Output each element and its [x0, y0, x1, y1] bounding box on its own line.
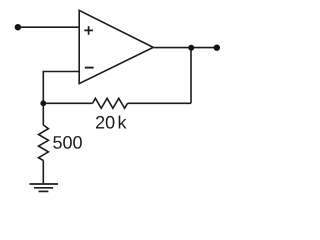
wire feedback rail right — [128, 102, 192, 104]
wire input to op-amp + — [18, 26, 79, 28]
label 20 k — [96, 115, 127, 128]
node output junction — [188, 45, 194, 51]
wire output — [153, 47, 217, 49]
wire inverting input — [43, 72, 79, 104]
op-amp + pin marker — [84, 26, 93, 35]
wire output feedback vertical — [190, 48, 192, 104]
op-amp U1 — [79, 10, 153, 83]
wire feedback rail left — [43, 102, 92, 104]
resistor R1 500 — [39, 125, 49, 161]
ground — [30, 184, 59, 191]
resistor R2 20k — [93, 98, 128, 108]
wire junction to resistor R1 — [42, 103, 44, 125]
wire resistor R1 to ground — [42, 161, 44, 184]
node input terminal — [15, 24, 21, 30]
label 500 — [53, 136, 82, 149]
node feedback junction — [40, 100, 46, 106]
node output terminal — [214, 45, 220, 51]
op-amp - pin marker — [85, 67, 94, 69]
